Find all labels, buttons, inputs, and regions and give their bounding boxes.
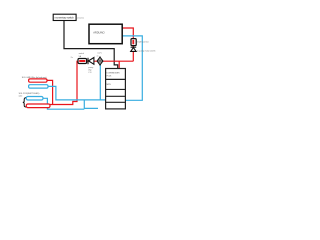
svg-text:switch: switch (79, 52, 85, 55)
svg-text:PLUS: PLUS (107, 76, 113, 78)
svg-text:sw(?): sw(?) (97, 53, 102, 55)
svg-text:on: on (97, 56, 99, 58)
svg-text:(mom): (mom) (77, 17, 84, 19)
brace for SOL POS group (23, 98, 27, 107)
terminal bar J2 cyan (SOL GND -) (29, 85, 48, 88)
module U1 (arduino) (89, 24, 122, 44)
svg-text:ARDUINO: ARDUINO (93, 31, 104, 35)
wire: cyan tie vertical x=84 between left bus and bottom run (84, 100, 98, 108)
wire: black from switch S1 to controller top pin (64, 21, 118, 70)
switch S1 momentary (53, 14, 76, 20)
terminal bar J3 cyan (SOL POS -) (26, 97, 43, 101)
wire: cyan drop from node N1 down to left bus (99, 62, 101, 100)
controller K1 (downrigger plug) (106, 69, 126, 109)
wire: cyan from module U1 right pin around to controller K1 right pin (122, 36, 142, 100)
diode D2 (131, 47, 137, 51)
svg-text:DOWNRIGGER: DOWNRIGGER (107, 73, 121, 75)
svg-text:2x: 2x (71, 57, 73, 59)
diode D1 (88, 58, 94, 65)
svg-text:momentary switch: momentary switch (55, 16, 75, 20)
svg-text:to pump motor (12V): to pump motor (12V) (137, 50, 156, 53)
wire: red stub into controller K1 top pin (118, 61, 120, 69)
terminal bar J4 red (SOL POS +) (26, 104, 50, 108)
node N1 junction (97, 56, 103, 65)
wire: red branch from SOL GND red bar down to bus (47, 80, 53, 104)
wire: cyan from SOL POS cyan bar along bottom (43, 98, 85, 109)
fuse F2 (131, 39, 136, 46)
svg-text:15A fuse line: 15A fuse line (137, 40, 149, 43)
svg-text:MPN: MPN (107, 84, 112, 86)
wire: cyan from SOL GND cyan bar to controller K1 left pin (48, 86, 106, 100)
fuse F1 (78, 59, 87, 64)
wire: red from module U1 right pin to fuse F2 drop (122, 28, 133, 61)
terminal bar J1 red (SOL GND +) (29, 79, 47, 82)
wire: red main bus y=61 from F2 drop left through F1/D1/node to riser and SOL POS bar (50, 61, 134, 104)
